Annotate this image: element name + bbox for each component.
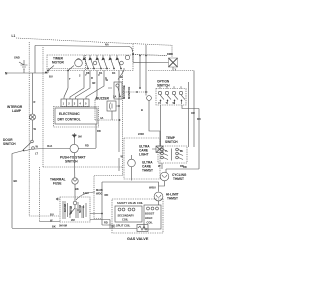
svg-text:SECONDARY: SECONDARY bbox=[118, 214, 135, 218]
timer motor sub-box edge bbox=[85, 55, 87, 71]
timer contact 5 bbox=[109, 55, 115, 69]
svg-text:FUSE: FUSE bbox=[53, 182, 62, 186]
option switch contact 4 bbox=[179, 91, 185, 104]
svg-text:L1: L1 bbox=[12, 34, 16, 38]
svg-text:Y: Y bbox=[175, 68, 177, 72]
gas valve outer dashed box bbox=[112, 199, 163, 233]
svg-text:BOOST: BOOST bbox=[145, 212, 155, 216]
svg-text:5M: 5M bbox=[78, 135, 82, 139]
timer cam follower circle bbox=[125, 55, 129, 59]
svg-text:SWITCH: SWITCH bbox=[165, 140, 178, 144]
svg-text:BU: BU bbox=[50, 213, 54, 217]
svg-text:4A: 4A bbox=[100, 116, 103, 120]
wire console top solid bbox=[35, 46, 133, 53]
svg-text:BU: BU bbox=[112, 225, 116, 229]
drive motor dashed box bbox=[60, 197, 90, 222]
svg-text:THMST: THMST bbox=[173, 177, 184, 181]
svg-text:MOTOR: MOTOR bbox=[52, 61, 65, 65]
svg-text:BUZZER: BUZZER bbox=[96, 97, 110, 101]
wire to DMD upper dashed bbox=[133, 55, 167, 56]
wire DMD drop bbox=[172, 67, 174, 71]
wire ground stub bbox=[23, 69, 25, 73]
wire buzzer bottom dashed bbox=[95, 119, 120, 121]
svg-text:SWITCH: SWITCH bbox=[157, 84, 170, 88]
wire temp drop to cycling bbox=[161, 163, 163, 169]
wire cycling to hi-limit bbox=[159, 181, 165, 187]
svg-text:HOLD: HOLD bbox=[145, 216, 152, 220]
wire timer drop x140 bbox=[139, 56, 141, 89]
temp switch dashed box bbox=[158, 146, 187, 163]
timer TM dashed box bbox=[47, 55, 133, 71]
lamp IL circle bbox=[30, 114, 36, 120]
svg-text:W/BU: W/BU bbox=[149, 186, 156, 190]
svg-text:5M 6M: 5M 6M bbox=[59, 224, 67, 228]
wire cabinet corner at DMD bbox=[171, 45, 173, 57]
wire console left solid bbox=[34, 46, 36, 74]
console dashed bottom edge bbox=[43, 166, 123, 168]
svg-text:1M 2M: 1M 2M bbox=[63, 204, 67, 212]
wire cabinet bottom dashed to motor bbox=[29, 215, 60, 217]
svg-text:D4: D4 bbox=[112, 71, 116, 75]
wire L1 drop to timer node bbox=[132, 44, 134, 54]
option switch contact 3 bbox=[172, 91, 178, 104]
option switch dashed box bbox=[156, 89, 186, 106]
relay K1 small box bbox=[114, 82, 122, 99]
svg-text:5M 6M: 5M 6M bbox=[78, 205, 82, 213]
wire push-to-start feed bbox=[73, 138, 75, 144]
ECD terminal strip bbox=[61, 99, 89, 107]
wire door switch down left bbox=[11, 154, 13, 229]
svg-text:LAMP: LAMP bbox=[12, 109, 22, 113]
door switch DS bbox=[31, 140, 34, 143]
motor internal contacts bbox=[73, 201, 77, 205]
wire option bottom jog bbox=[182, 105, 199, 109]
svg-text:SPLIT COIL: SPLIT COIL bbox=[116, 224, 131, 228]
option switch contact 2 bbox=[165, 91, 171, 104]
svg-text:WDG: WDG bbox=[96, 192, 102, 196]
wire push-to-start to thermal fuse bbox=[74, 153, 76, 178]
svg-text:G: G bbox=[105, 76, 107, 80]
node timer feed junction bbox=[132, 53, 134, 55]
svg-text:LIGHT: LIGHT bbox=[139, 153, 149, 157]
temp switch contacts col 2 bbox=[176, 148, 183, 159]
timer contact 4 bbox=[102, 55, 108, 69]
timer contact 3 bbox=[96, 55, 102, 69]
svg-text:BK: BK bbox=[52, 225, 56, 229]
option top ticks bbox=[160, 86, 181, 88]
svg-text:B: B bbox=[141, 108, 143, 112]
wire L1 supply dashed bbox=[16, 38, 172, 45]
lamp DMD crossed box bbox=[169, 58, 178, 67]
wire timer drop x68 bbox=[64, 66, 74, 100]
node N junction bbox=[45, 72, 47, 74]
ECD electronic dry control box bbox=[54, 107, 99, 128]
svg-text:COIL: COIL bbox=[147, 221, 154, 225]
wire dashed to DMD bbox=[133, 55, 166, 56]
cycling thermostat CT bbox=[160, 172, 169, 181]
svg-text:3UA: 3UA bbox=[47, 144, 52, 148]
svg-text:BU: BU bbox=[49, 75, 53, 79]
motor internal bars bbox=[63, 201, 86, 219]
svg-text:ELECTRONIC: ELECTRONIC bbox=[59, 112, 80, 116]
wire option right rail 2 bbox=[193, 71, 195, 148]
svg-text:SWITCH: SWITCH bbox=[65, 160, 78, 164]
wire cabinet left dashed bbox=[28, 42, 30, 216]
svg-text:RD: RD bbox=[85, 144, 89, 148]
timer circled cam numbers bbox=[93, 61, 97, 65]
hi-limit thermostat HL bbox=[154, 192, 163, 201]
wire lamp to door switch bbox=[32, 120, 34, 140]
wire ultra links bbox=[132, 149, 157, 181]
temp switch mid bar bbox=[171, 149, 173, 161]
svg-text:MONITOR: MONITOR bbox=[127, 87, 131, 99]
timer internal dashed rail bbox=[48, 68, 110, 70]
svg-text:MAIN: MAIN bbox=[96, 188, 103, 192]
ultra care thermostat circle bbox=[128, 159, 136, 167]
svg-text:R: R bbox=[91, 76, 93, 80]
svg-text:BK: BK bbox=[75, 187, 79, 191]
timer motor M1 circle bbox=[75, 59, 83, 67]
svg-text:RD: RD bbox=[104, 221, 108, 225]
svg-text:NA: NA bbox=[105, 43, 109, 47]
svg-text:SWITCH: SWITCH bbox=[3, 142, 16, 146]
connector arrow above push-to-start bbox=[72, 133, 77, 138]
wire timer drop x90 bbox=[76, 71, 91, 100]
wire RD return from option bbox=[166, 169, 199, 173]
svg-text:V: V bbox=[158, 101, 160, 105]
wire gas feed vertical bbox=[102, 182, 115, 225]
svg-text:GAS VALVE: GAS VALVE bbox=[127, 237, 149, 241]
option switch contact 1 bbox=[158, 91, 164, 104]
svg-text:V: V bbox=[98, 73, 100, 77]
wire option drop left bbox=[160, 105, 162, 146]
svg-text:DMD: DMD bbox=[167, 52, 173, 56]
wire timer drop x84 bbox=[70, 71, 84, 100]
harness dashed Z path bbox=[94, 167, 123, 219]
svg-text:2208: 2208 bbox=[138, 132, 144, 136]
svg-text:SAFETY VALVE COIL: SAFETY VALVE COIL bbox=[117, 201, 143, 205]
wire motor right to gas valve bbox=[90, 214, 110, 229]
wire fuse to motor bbox=[74, 184, 76, 198]
wire DMD dashed to right rail bbox=[148, 70, 194, 72]
push-to-start switch PS bbox=[70, 144, 78, 152]
timer contact 1 bbox=[83, 55, 89, 69]
svg-text:THMST: THMST bbox=[142, 169, 153, 173]
svg-text:OR: OR bbox=[191, 111, 195, 115]
wire timer drop x146 bbox=[145, 45, 147, 92]
svg-text:V: V bbox=[165, 149, 167, 153]
wire hi-limit down to gas valve bbox=[158, 201, 160, 206]
buzzer BZ symbol bbox=[107, 101, 116, 111]
wire buzzer to right rail bbox=[112, 106, 119, 120]
timer contact 2 bbox=[89, 55, 95, 69]
svg-text:COIL: COIL bbox=[122, 218, 129, 222]
motor start winding curve bbox=[76, 192, 95, 200]
wire console inner dashed vertical bbox=[42, 47, 44, 167]
temp switch contacts col 1 bbox=[161, 148, 168, 159]
wire bottom return bbox=[12, 228, 137, 230]
timer contact 6 bbox=[116, 55, 122, 69]
timer aux diagonal bbox=[118, 68, 124, 80]
wire timer drop x104 bbox=[86, 71, 112, 100]
svg-text:R: R bbox=[34, 100, 36, 104]
svg-text:Y: Y bbox=[85, 73, 87, 77]
wire timer drop x119 bbox=[118, 71, 120, 172]
wire N line bbox=[5, 72, 46, 74]
svg-text:GND: GND bbox=[14, 56, 20, 60]
wire L1 vertical ext bbox=[132, 55, 134, 63]
wire motor left feeds bbox=[39, 167, 41, 222]
svg-text:2A: 2A bbox=[113, 95, 116, 99]
wire to DMD lower bbox=[133, 61, 169, 63]
wire option right rail 1 bbox=[188, 82, 190, 147]
svg-text:LT: LT bbox=[35, 152, 38, 156]
wire lamp feed bbox=[32, 73, 34, 114]
thermal fuse TF bbox=[72, 178, 78, 184]
svg-text:BK: BK bbox=[14, 179, 18, 183]
ultra care dashed box bbox=[124, 138, 160, 179]
wire timer drop x97 buzzer feed bbox=[95, 71, 97, 101]
svg-text:RD: RD bbox=[183, 165, 187, 169]
wire dashed option feed bbox=[122, 91, 148, 93]
gas valve booster/holding box bbox=[144, 205, 161, 229]
svg-text:3M 4M: 3M 4M bbox=[69, 206, 73, 214]
wire timer to N junction bbox=[46, 66, 54, 74]
contact CR1 bbox=[147, 96, 152, 101]
wire option right rail 3 bbox=[198, 109, 200, 170]
svg-text:DRY CONTROL: DRY CONTROL bbox=[58, 118, 81, 122]
console dashed right edge bbox=[122, 71, 124, 168]
gas valve secondary coil box bbox=[115, 206, 142, 222]
wire gas feed horizontal bbox=[102, 182, 159, 192]
svg-text:3R: 3R bbox=[92, 81, 95, 85]
svg-text:THMST: THMST bbox=[167, 197, 178, 201]
ignitor bbox=[137, 225, 148, 232]
svg-text:2M: 2M bbox=[71, 218, 75, 222]
svg-text:RD: RD bbox=[105, 193, 109, 197]
svg-text:RD: RD bbox=[97, 129, 101, 133]
ultra care light crossed box bbox=[156, 146, 163, 153]
wire ECD right drop to push-to-start bbox=[95, 124, 97, 148]
